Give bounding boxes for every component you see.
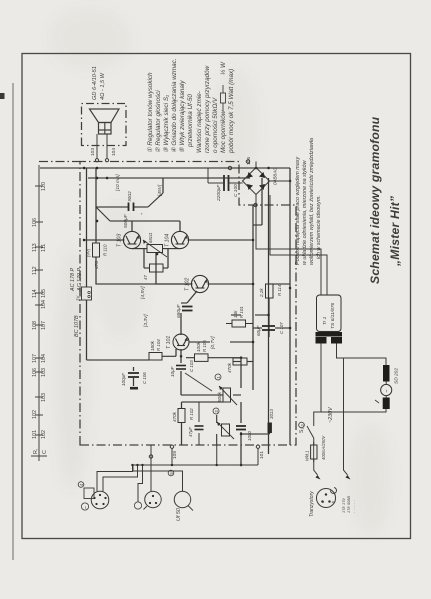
circled 5 xyxy=(168,470,174,476)
terminal circle node 101 xyxy=(256,445,259,448)
transistor list xyxy=(342,496,357,513)
svg-text:120: 120 xyxy=(41,182,47,191)
svg-text:~: ~ xyxy=(385,390,391,393)
mid return wire xyxy=(252,205,254,390)
resistor R106 100k xyxy=(195,354,209,362)
svg-text:104: 104 xyxy=(41,354,47,363)
speaker wires xyxy=(97,134,107,159)
svg-text:3V: 3V xyxy=(76,295,81,301)
wire diag tone xyxy=(185,373,212,391)
svg-text:60μF: 60μF xyxy=(256,324,261,336)
capacitor C102 47uF xyxy=(195,426,204,430)
capacitor C109 500uF output xyxy=(129,203,134,212)
resistor R102 470k xyxy=(178,409,185,423)
title: Schemat ideowy gramofonu "Mister Hit" xyxy=(368,116,402,284)
output node wire xyxy=(96,168,163,207)
svg-text:105: 105 xyxy=(41,289,47,298)
dash-dot stub to strip xyxy=(39,161,80,163)
svg-text:3: 3 xyxy=(299,424,304,427)
lower rail wire xyxy=(268,178,270,454)
supply rail wire xyxy=(40,167,290,169)
transformer core bar xyxy=(316,332,343,337)
resistor R104 180k xyxy=(149,353,162,361)
input wires xyxy=(240,358,242,465)
svg-text:R 106: R 106 xyxy=(202,340,207,352)
svg-text:1: 1 xyxy=(216,376,221,379)
scan blotch xyxy=(0,93,5,99)
scan edge line xyxy=(12,83,14,560)
svg-text:Uf 50: Uf 50 xyxy=(176,508,182,521)
svg-text:T 101: T 101 xyxy=(166,336,172,349)
svg-text:47μF: 47μF xyxy=(188,427,193,437)
svg-text:100k: 100k xyxy=(196,341,201,352)
svg-text:90Ω2: 90Ω2 xyxy=(127,191,132,202)
svg-text:TS 6/11/876: TS 6/11/876 xyxy=(330,302,336,329)
capacitor C100 2200uF xyxy=(224,175,229,191)
svg-text:Tr 1: Tr 1 xyxy=(322,316,328,325)
legend text block xyxy=(147,58,235,154)
bottom bus wire xyxy=(289,168,291,445)
svg-text:e: e xyxy=(321,501,325,503)
svg-text:47: 47 xyxy=(143,275,148,280)
bias trimmer pot xyxy=(147,245,163,253)
circled tilde xyxy=(81,503,88,510)
svg-text:C 100: C 100 xyxy=(233,184,239,197)
svg-text:b: b xyxy=(331,501,335,503)
svg-text:112: 112 xyxy=(32,266,38,275)
aux wire xyxy=(253,178,262,225)
capacitor lower xyxy=(262,326,275,330)
svg-text:GD 6-4/10-51: GD 6-4/10-51 xyxy=(92,66,98,100)
T101 base wire xyxy=(181,349,223,395)
svg-text:① Regulator tonów wysokich: ① Regulator tonów wysokich xyxy=(147,72,154,153)
T104 collector wire xyxy=(188,239,254,241)
svg-text:Wartości napięć zmie-: Wartości napięć zmie- xyxy=(196,91,203,153)
svg-text:AC 179 P: AC 179 P xyxy=(77,268,83,292)
legend resistor glyph xyxy=(221,85,226,111)
svg-text:„Mister Hit”: „Mister Hit” xyxy=(388,195,402,267)
svg-text:101: 101 xyxy=(259,451,265,459)
svg-text:[0,7V]: [0,7V] xyxy=(210,336,216,350)
svg-text:470: 470 xyxy=(94,261,100,269)
svg-text:Wkł.1: Wkł.1 xyxy=(305,451,310,461)
svg-text:04B8A0: 04B8A0 xyxy=(273,168,279,185)
battery box component xyxy=(82,287,92,300)
svg-text:508B: 508B xyxy=(347,496,351,505)
svg-text:SD 202: SD 202 xyxy=(394,368,400,384)
svg-text:R 101: R 101 xyxy=(239,306,244,318)
svg-text:[3,3V]: [3,3V] xyxy=(143,314,149,328)
capacitor C106 100uF with ground xyxy=(128,373,139,377)
svg-text:180k: 180k xyxy=(150,340,155,351)
svg-text:AC 178 P: AC 178 P xyxy=(70,268,76,292)
junction dots xyxy=(83,167,292,467)
svg-text:5: 5 xyxy=(169,472,174,475)
svg-text:113: 113 xyxy=(32,243,38,252)
top bus wire xyxy=(87,168,150,360)
svg-text:1000: 1000 xyxy=(247,431,252,441)
svg-text:BC 107B: BC 107B xyxy=(74,315,80,337)
svg-text:R 102: R 102 xyxy=(189,408,194,420)
svg-text:4: 4 xyxy=(79,483,84,486)
second rail wire xyxy=(88,177,250,179)
svg-text:R,: R, xyxy=(33,448,39,454)
T101 collector wire xyxy=(181,303,187,335)
svg-text:500μF: 500μF xyxy=(123,213,129,228)
svg-text:· · · · · ·: · · · · · · xyxy=(353,500,357,513)
terminal strip line xyxy=(38,165,40,461)
transistor T103 xyxy=(123,231,140,248)
motor winding SD202 xyxy=(383,365,390,382)
svg-text:[45V]: [45V] xyxy=(157,184,163,197)
svg-text:o oporności 50kΩ/V: o oporności 50kΩ/V xyxy=(212,97,219,153)
connector cluster wires xyxy=(97,445,258,502)
svg-text:C 107: C 107 xyxy=(279,322,284,334)
svg-text:15k: 15k xyxy=(233,310,238,318)
svg-text:C 106: C 106 xyxy=(142,372,147,384)
svg-text:T 103: T 103 xyxy=(117,234,123,247)
DIN socket (4) gniazdo xyxy=(91,491,109,509)
page border frame xyxy=(22,54,411,539)
mains plug arrows xyxy=(316,475,321,480)
svg-text:106: 106 xyxy=(32,368,38,377)
amplifier board outline (dash-dot with notch) xyxy=(80,162,296,446)
driver T102 wires xyxy=(156,253,253,304)
svg-text:2: 2 xyxy=(214,410,219,413)
svg-text:101: 101 xyxy=(32,430,38,439)
terminal dots 103/104 xyxy=(95,159,98,162)
transistor T102 xyxy=(191,275,208,292)
svg-text:111: 111 xyxy=(41,244,47,252)
svg-text:500k: 500k xyxy=(217,391,222,402)
svg-text:Schemat ideowy gramofonu: Schemat ideowy gramofonu xyxy=(368,116,382,284)
svg-text:107: 107 xyxy=(32,354,38,363)
svg-text:③ Wyłącznik sieci S₁: ③ Wyłącznik sieci S₁ xyxy=(163,95,170,153)
resistor 470k input xyxy=(233,358,247,365)
svg-text:400mA/250V: 400mA/250V xyxy=(321,435,326,460)
transformer Tr1 TS 6/11/876 xyxy=(317,295,342,332)
terminal circle on board edge xyxy=(170,445,173,448)
mains line 1 with switch S1 and fuse xyxy=(307,344,386,476)
capacitor C103 10uF xyxy=(176,366,186,370)
svg-text:~: ~ xyxy=(84,506,90,509)
capacitor 680uF driver xyxy=(182,307,193,311)
svg-text:R 114: R 114 xyxy=(277,284,282,296)
svg-text:④ Gniazdo do dołączania wzmac.: ④ Gniazdo do dołączania wzmac. xyxy=(171,58,178,153)
svg-text:pobór mocy ok 7,5 Watt (max): pobór mocy ok 7,5 Watt (max) xyxy=(228,69,235,154)
bias chain wire xyxy=(132,249,180,268)
svg-text:108: 108 xyxy=(32,321,38,330)
svg-text:[9V]: [9V] xyxy=(86,248,91,258)
svg-text:103: 103 xyxy=(41,368,47,377)
svg-text:woltomierzem wyfald, bez źowi: woltomierzem wyfald, bez źowieścizbi zmi… xyxy=(309,138,315,265)
svg-text:2,2k: 2,2k xyxy=(259,288,264,298)
svg-text:114: 114 xyxy=(32,289,38,298)
socket square tab xyxy=(84,488,94,499)
svg-text:1T9: 1T9 xyxy=(342,498,346,505)
svg-text:~230V: ~230V xyxy=(328,406,334,423)
input cap black bar xyxy=(268,423,272,434)
svg-text:R 110: R 110 xyxy=(103,244,108,256)
terminal circle on wire xyxy=(149,455,152,458)
primary winding blocks xyxy=(316,337,327,344)
fuse Bt1 WTA-T 400mA/250V xyxy=(311,445,317,459)
resistor 15k xyxy=(232,320,246,327)
svg-text:107: 107 xyxy=(41,321,47,330)
junction dots cluster xyxy=(131,464,218,466)
svg-text:C 103: C 103 xyxy=(189,360,194,372)
cartridge plug circle b xyxy=(174,491,190,507)
svg-text:S₁: S₁ xyxy=(299,428,305,433)
loudspeaker enclosure box (dash-dot) xyxy=(82,104,127,146)
svg-text:102: 102 xyxy=(32,410,38,419)
svg-text:Tranzystory: Tranzystory xyxy=(309,491,315,517)
loudspeaker GD 6-4/10-51 xyxy=(90,109,120,134)
Tranzystory pinout circle xyxy=(317,489,336,508)
T101 bias divider wire xyxy=(162,349,241,358)
tone pot (1) 500k xyxy=(223,388,231,402)
input capacitor xyxy=(236,426,246,430)
svg-text:C: C xyxy=(42,450,48,454)
svg-text:R 104: R 104 xyxy=(156,339,161,351)
resistor bias xyxy=(150,264,164,272)
note text block xyxy=(295,138,322,265)
wire bridge dc xyxy=(255,162,257,168)
svg-text:680μF: 680μF xyxy=(176,303,182,318)
bridge rectifier 04B8A0 xyxy=(243,168,270,195)
strip ticks xyxy=(31,186,47,456)
feedback wire xyxy=(96,207,193,284)
small socket circle xyxy=(134,502,141,509)
strip R/C row labels xyxy=(32,182,48,454)
circled 4 xyxy=(78,482,84,488)
svg-text:T 104: T 104 xyxy=(165,234,171,247)
wires secondary to bridge xyxy=(256,195,327,296)
svg-text:103: 103 xyxy=(90,148,96,156)
svg-text:4Ω - 1,5 W: 4Ω - 1,5 W xyxy=(100,72,106,100)
motor M xyxy=(381,384,392,395)
svg-text:2200μF: 2200μF xyxy=(216,184,222,202)
svg-text:100μF: 100μF xyxy=(121,372,126,386)
svg-text:102: 102 xyxy=(41,430,47,439)
resistor R110 470 feedback xyxy=(93,243,100,257)
svg-text:[10 mA]: [10 mA] xyxy=(115,174,121,192)
svg-text:681Ω: 681Ω xyxy=(148,232,153,243)
svg-text:108: 108 xyxy=(172,451,178,459)
motor winding 2 xyxy=(383,398,390,410)
svg-text:3013: 3013 xyxy=(269,409,274,419)
svg-text:104: 104 xyxy=(111,148,117,156)
wire bridge to bus xyxy=(270,180,291,182)
resistor 2.2k xyxy=(266,284,274,298)
svg-text:470k: 470k xyxy=(227,362,232,373)
svg-text:104: 104 xyxy=(41,300,47,309)
svg-text:+: + xyxy=(140,212,144,215)
svg-text:470k: 470k xyxy=(172,411,177,422)
svg-text:1T8: 1T8 xyxy=(347,506,351,513)
svg-text:przetwornika Uf-50: przetwornika Uf-50 xyxy=(187,94,194,148)
T103 collector wire xyxy=(84,239,125,241)
svg-text:103: 103 xyxy=(41,393,47,402)
volume pot (2) xyxy=(222,424,230,436)
cartridge plug circle a xyxy=(145,491,161,507)
svg-text:② Regulator głośności: ② Regulator głośności xyxy=(155,90,162,153)
C106 wire xyxy=(133,367,135,386)
svg-text:rzone przy pomocy przyrządów: rzone przy pomocy przyrządów xyxy=(204,65,211,153)
svg-text:[4,5V]: [4,5V] xyxy=(140,286,146,300)
transistor T104 xyxy=(171,231,188,248)
transistor T101 xyxy=(173,334,189,350)
svg-text:⅓ W: ⅓ W xyxy=(220,61,227,75)
svg-text:1T8: 1T8 xyxy=(342,506,346,513)
T101 emitter wire xyxy=(189,341,254,343)
svg-text:⑤ Wtyk zwierający kanały: ⑤ Wtyk zwierający kanały xyxy=(179,80,186,153)
svg-text:10μF: 10μF xyxy=(170,365,175,377)
svg-text:106: 106 xyxy=(32,218,38,227)
svg-text:T 102: T 102 xyxy=(185,278,191,291)
svg-text:Moc oporników: Moc oporników xyxy=(220,110,227,153)
